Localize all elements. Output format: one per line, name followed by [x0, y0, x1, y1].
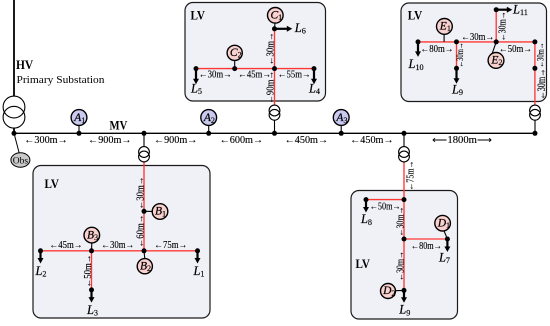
svg-text:←80m→: ←80m→ [411, 241, 442, 252]
svg-text:←30m→: ←30m→ [136, 177, 147, 210]
svg-text:←75m→: ←75m→ [154, 240, 187, 251]
svg-text:MV: MV [110, 118, 128, 133]
svg-text:←450m→: ←450m→ [350, 135, 394, 146]
svg-text:LV: LV [408, 7, 423, 22]
svg-text:←30m→: ←30m→ [396, 251, 407, 281]
svg-text:←30m→: ←30m→ [265, 32, 276, 65]
svg-text:←80m→: ←80m→ [421, 44, 454, 55]
svg-text:⟵1800m⟶: ⟵1800m⟶ [432, 135, 492, 146]
svg-text:←30m→: ←30m→ [534, 69, 548, 100]
svg-text:←30m→: ←30m→ [396, 207, 407, 237]
svg-text:HV: HV [16, 57, 34, 72]
svg-text:←900m→: ←900m→ [154, 135, 198, 146]
svg-text:←30m→: ←30m→ [455, 43, 465, 68]
svg-text:←600m→: ←600m→ [220, 135, 264, 146]
svg-text:←30m→: ←30m→ [101, 240, 134, 251]
svg-text:←30m→: ←30m→ [536, 43, 546, 68]
svg-text:Primary Substation: Primary Substation [17, 74, 106, 86]
svg-text:LV: LV [191, 7, 206, 22]
svg-text:←30m→: ←30m→ [497, 11, 508, 41]
svg-text:←30m→: ←30m→ [199, 70, 232, 81]
svg-text:←75m→: ←75m→ [405, 161, 416, 191]
svg-text:←50m→: ←50m→ [499, 44, 532, 55]
svg-text:←450m→: ←450m→ [285, 135, 329, 146]
svg-text:←50m→: ←50m→ [83, 255, 94, 288]
svg-text:←60m→: ←60m→ [136, 215, 147, 248]
svg-text:←90m→: ←90m→ [265, 71, 276, 104]
svg-text:←30m→: ←30m→ [461, 32, 494, 43]
svg-text:LV: LV [45, 176, 60, 191]
svg-text:←900m→: ←900m→ [88, 135, 132, 146]
svg-text:LV: LV [356, 256, 371, 271]
svg-text:←300m→: ←300m→ [24, 135, 68, 146]
svg-text:←55m→: ←55m→ [278, 70, 311, 81]
svg-text:←45m→: ←45m→ [50, 240, 83, 251]
svg-text:Obs: Obs [13, 156, 29, 166]
